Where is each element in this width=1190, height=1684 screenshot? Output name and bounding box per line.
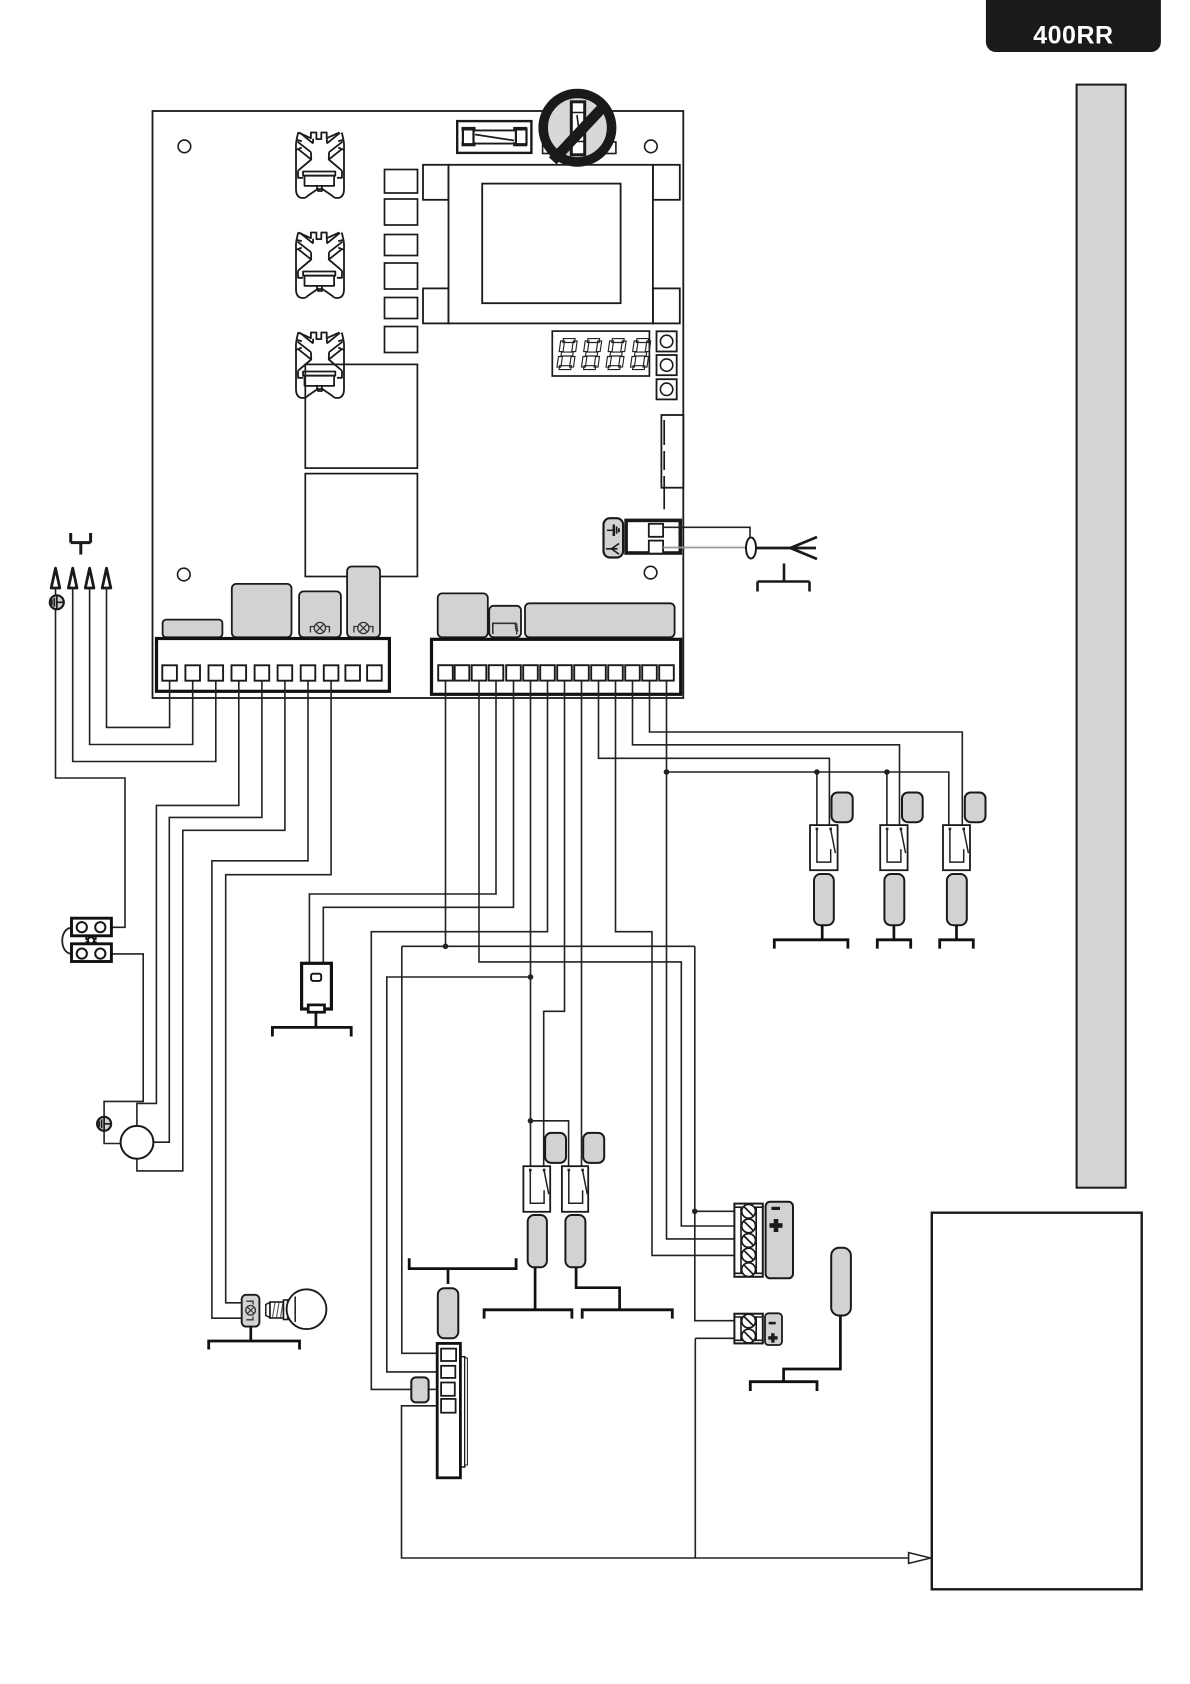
svg-text:400RR: 400RR <box>1033 22 1113 50</box>
